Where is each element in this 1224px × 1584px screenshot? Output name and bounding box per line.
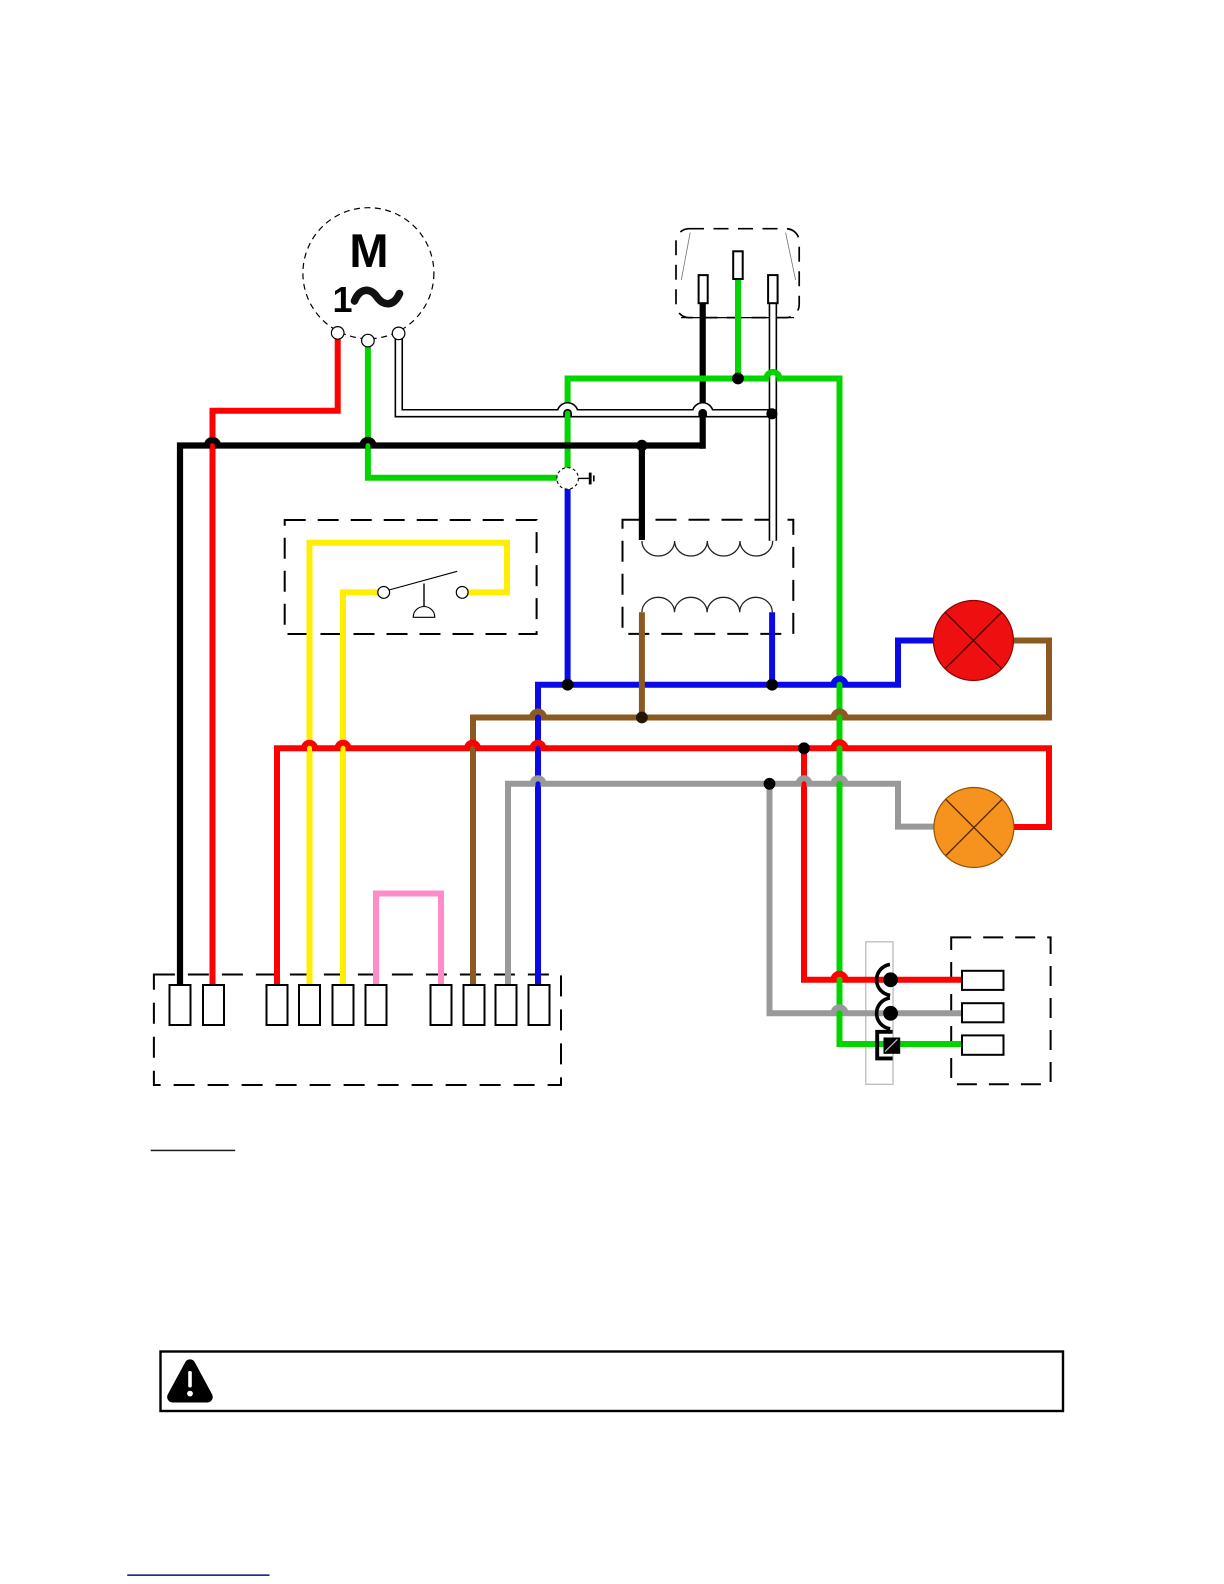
wire gray W-bus (terminal 9 up, east, hops blue/red/green, down to orange lamp left) bbox=[508, 778, 936, 990]
warning triangle bbox=[167, 1359, 213, 1402]
receptacle X2 pin 3 bbox=[962, 1035, 1004, 1054]
motor terminal 1 bbox=[331, 327, 344, 340]
receptacle X2 pin 2 bbox=[962, 1003, 1004, 1022]
junction dot green plug / green bus bbox=[732, 373, 744, 385]
motor M1 outline bbox=[303, 208, 434, 339]
plug prong centre bbox=[733, 251, 743, 279]
plug body left slant bbox=[681, 233, 690, 281]
terminal strip X1 terminal 8 bbox=[464, 985, 485, 1025]
inline connector housing (light gray) bbox=[866, 942, 893, 1085]
transformer T1 secondary coil bbox=[642, 597, 772, 612]
inline connector gray contact bbox=[877, 998, 898, 1029]
warning exclamation bbox=[188, 1371, 192, 1388]
motor terminal 3 bbox=[392, 327, 405, 340]
receptacle X2 dashed box bbox=[951, 937, 1050, 1084]
lamp H2 orange bbox=[934, 788, 1014, 868]
warning box bbox=[161, 1352, 1064, 1412]
wire red W-motor (motor left terminal to terminal 2) bbox=[213, 333, 338, 990]
receptacle X2 pin 1 bbox=[962, 971, 1004, 990]
plug P1 dashed outline bbox=[676, 229, 799, 318]
terminal strip X1 terminal 7 bbox=[431, 985, 452, 1025]
inline connector red contact bbox=[877, 964, 898, 995]
junction dot red bus / red drop bbox=[798, 742, 810, 754]
wire blue W-transformer drop (secondary right to blue bus) bbox=[769, 612, 775, 684]
underline small (caption) bbox=[151, 1150, 236, 1152]
terminal strip X1 terminal 2 bbox=[203, 985, 224, 1025]
switch S1 contact right bbox=[456, 587, 468, 599]
terminal strip X1 dashed box bbox=[154, 975, 561, 1086]
plug bottom edge bbox=[681, 317, 794, 319]
wire green W-plug (plug centre prong down to green bus) bbox=[735, 265, 741, 379]
plug prong left bbox=[699, 275, 708, 303]
terminal strip X1 terminal 1 bbox=[170, 985, 191, 1025]
wire green W-main (splice up, east over white wire, down right side, to earth contact) bbox=[568, 372, 963, 1044]
terminal strip X1 terminal 3 bbox=[267, 985, 288, 1025]
wire blue W-splice drop (splice ball down to blue bus) bbox=[565, 487, 571, 685]
transformer T1 primary coil bbox=[642, 541, 773, 556]
terminal strip X1 terminal 4 bbox=[299, 985, 320, 1025]
junction dot blue splice / blue bus bbox=[562, 679, 574, 691]
svg-text:M: M bbox=[349, 224, 388, 277]
wire red W-drop (red bus tee down to inline connector, to receptacle pin 1) bbox=[804, 748, 963, 979]
switch S1 dashed box bbox=[285, 520, 537, 634]
terminal strip X1 terminal 5 bbox=[333, 985, 354, 1025]
plug prong right bbox=[768, 275, 778, 303]
junction dot black bus / transformer bbox=[636, 440, 647, 451]
wire white W-neutral (motor right terminal east, hops over green and black, tee at white vertical) bbox=[399, 333, 773, 413]
junction dot blue transformer / blue bus bbox=[766, 679, 778, 691]
lamp H1 red bbox=[933, 601, 1013, 681]
wire green W-motor (motor centre terminal to splice ball) bbox=[368, 340, 560, 478]
junction dot brown transformer / brown bus bbox=[636, 712, 648, 724]
junction dot gray bus / gray drop bbox=[764, 778, 776, 790]
switch S1 actuator stem bbox=[423, 584, 425, 607]
motor terminal 2 bbox=[362, 334, 375, 347]
plug body right slant bbox=[786, 233, 796, 281]
switch S1 contact left bbox=[378, 587, 390, 599]
motor label tilde bbox=[355, 290, 400, 303]
wire pink W-jumper (terminal 6 to terminal 7) bbox=[376, 894, 441, 991]
wire black W-plug-left vertical (plug left prong down) bbox=[700, 290, 706, 449]
wire brown W-bus (terminal 8 up, east, hops blue and green, up to red lamp right) bbox=[473, 641, 1049, 991]
svg-text:1: 1 bbox=[332, 279, 352, 320]
wire gray W-drop (gray bus tee down, east to inline connector, to receptacle pin 2) bbox=[770, 784, 964, 1013]
transformer T1 dashed box bbox=[623, 520, 794, 634]
wire white W-plug-right vertical (plug right prong to transformer) bbox=[769, 290, 778, 541]
switch S1 lever bbox=[389, 571, 457, 590]
wire black W-mains bus (hops over red and green, down to terminal 1) bbox=[180, 440, 703, 990]
switch S1 actuator dome bbox=[413, 607, 435, 618]
terminal strip X1 terminal 9 bbox=[496, 985, 517, 1025]
wire black W-transformer vertical bbox=[639, 446, 645, 541]
wire yellow W-switch-2 (terminal 5 up to left contact) bbox=[343, 592, 378, 990]
wire red W-bus (terminal 3 up, east, hops yellows/brown/blue/green, down to orange lamp right) bbox=[277, 742, 1049, 990]
junction dot white tee bbox=[766, 408, 777, 419]
terminal strip X1 terminal 6 bbox=[366, 985, 387, 1025]
wire blue W-bus (terminal 10 up, east, hops green, up to red lamp) bbox=[538, 641, 936, 991]
link underline bottom bbox=[127, 1574, 269, 1576]
wire yellow W-switch-1 (terminal 4 up, around switch top, to right contact) bbox=[310, 543, 508, 990]
wire brown W-transformer drop (secondary left to brown bus) bbox=[639, 612, 645, 717]
terminal strip X1 terminal 10 bbox=[529, 985, 550, 1025]
splice ball (green/blue junction with chassis tick) bbox=[557, 468, 595, 490]
inline connector green contact bbox=[877, 1032, 900, 1059]
